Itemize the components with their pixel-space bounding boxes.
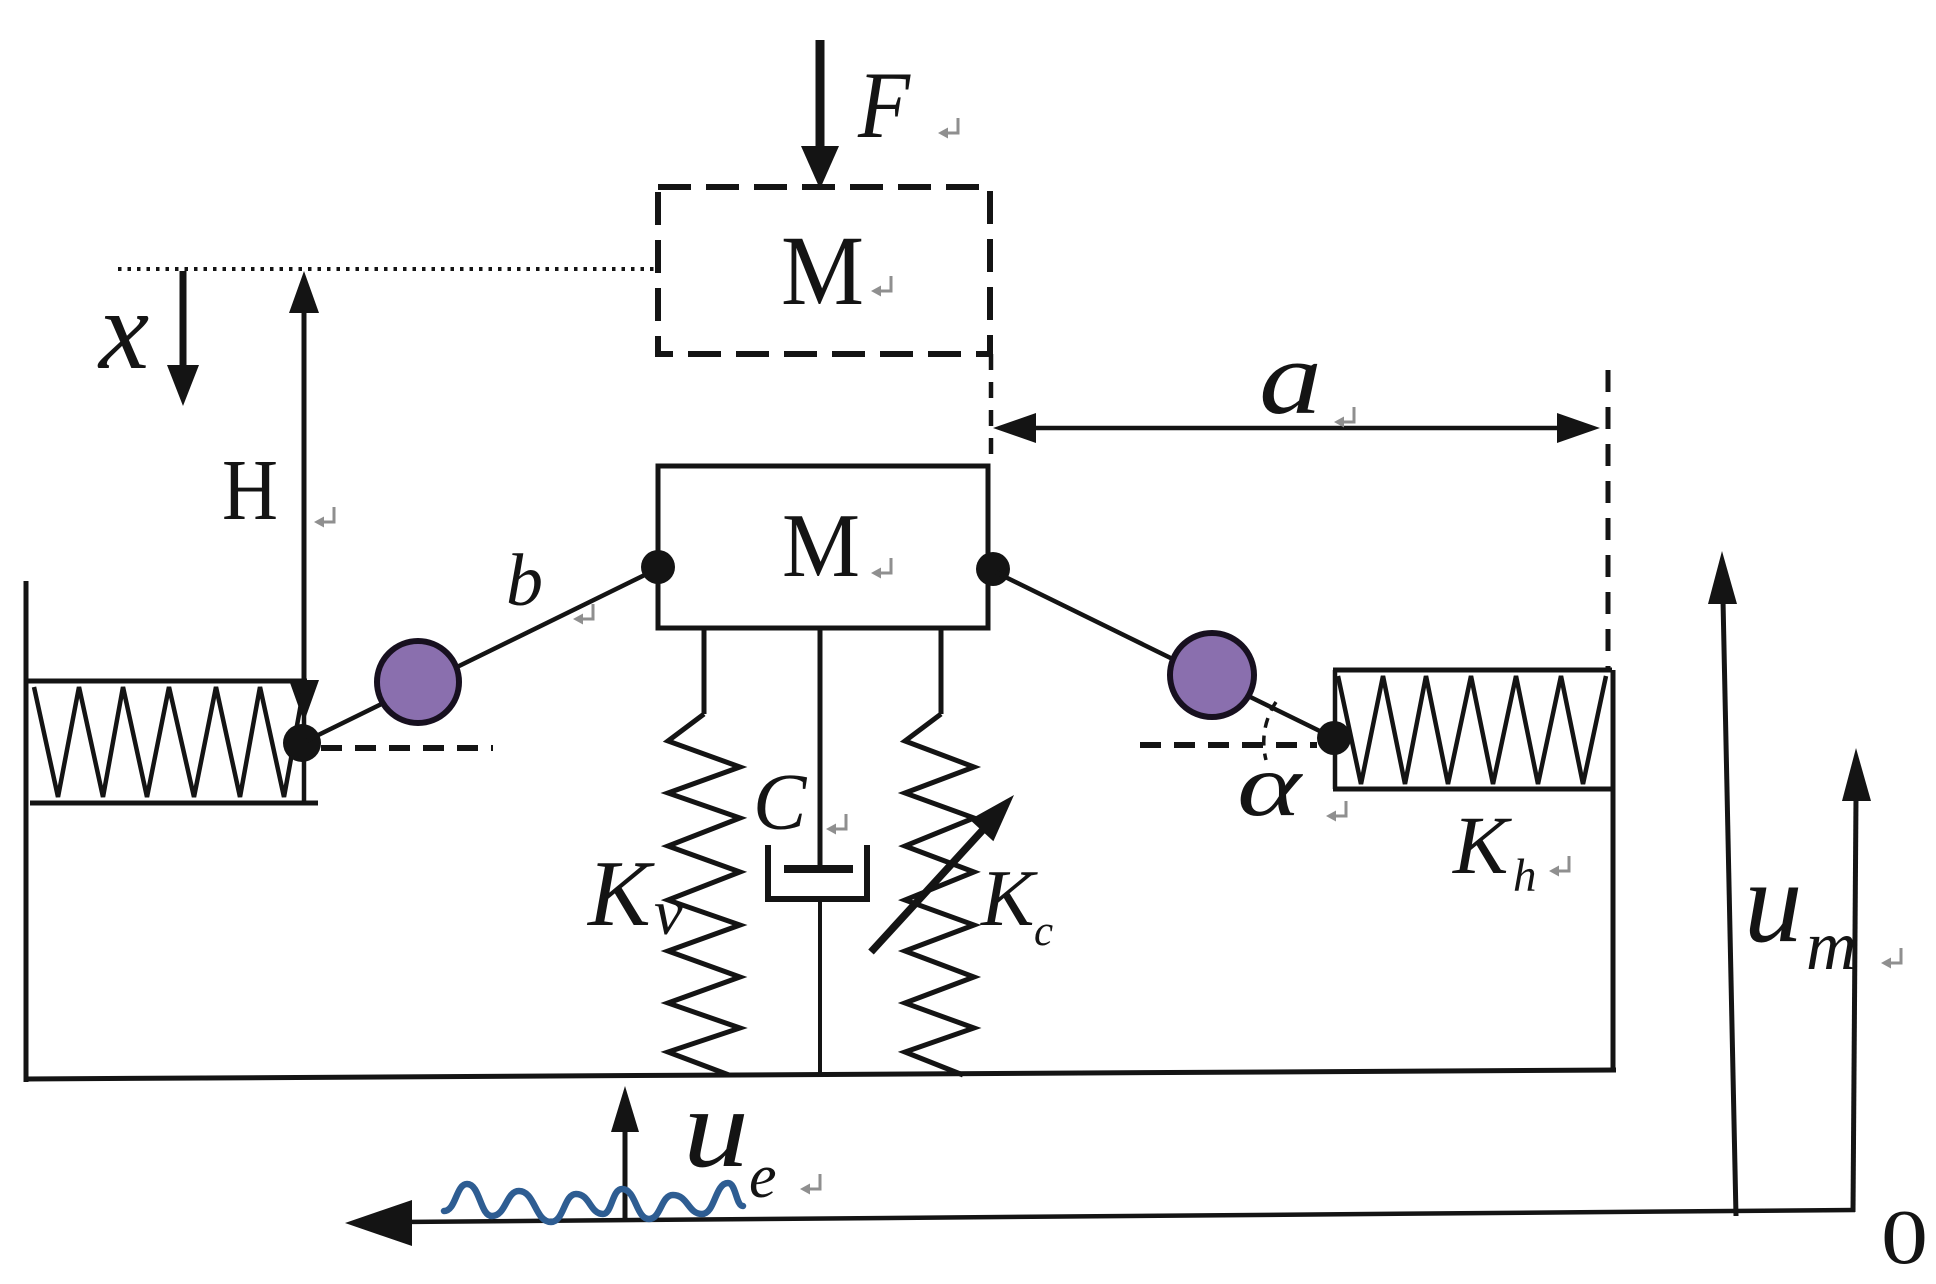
svg-text:K: K — [1452, 799, 1512, 891]
ground line — [24, 1070, 1616, 1079]
svg-text:a: a — [1259, 319, 1322, 436]
dashed angle arc — [1264, 702, 1276, 760]
svg-text:u: u — [1744, 838, 1803, 967]
svg-text:v: v — [654, 877, 683, 949]
dimension H double arrow — [289, 271, 319, 722]
svg-text:b: b — [506, 540, 543, 622]
paragraph mark after C — [826, 814, 846, 835]
spring Kh bottom rail — [1333, 787, 1612, 792]
spring Kh zigzag — [1338, 676, 1606, 784]
roller right (purple) — [1170, 633, 1254, 717]
spring Kh-left end plate — [302, 687, 307, 803]
dashed reference right — [1140, 742, 1317, 748]
svg-text:e: e — [749, 1143, 777, 1211]
displacement x arrow — [167, 271, 199, 406]
link rod b — [302, 568, 659, 743]
svg-text:x: x — [97, 268, 149, 393]
svg-text:H: H — [222, 441, 278, 538]
svg-text:M: M — [781, 215, 864, 326]
right wall — [1611, 670, 1616, 1071]
spring Kc stub — [939, 628, 944, 714]
paragraph mark after M middle — [871, 558, 891, 579]
spring Kh-left zigzag — [34, 687, 304, 797]
right pivot node — [1317, 721, 1351, 755]
svg-text:u: u — [683, 1066, 749, 1191]
svg-text:K: K — [980, 855, 1038, 943]
svg-text:C: C — [753, 759, 808, 847]
svg-text:M: M — [782, 495, 860, 596]
node right on box — [976, 552, 1010, 586]
displacement um arrow tall — [1708, 551, 1737, 1216]
damper cylinder cup — [768, 845, 867, 899]
dashed vertical under upper box — [989, 354, 994, 466]
spring Kh-left bottom rail — [30, 801, 318, 806]
paragraph mark after Kh — [1549, 856, 1569, 877]
variable arrow through Kc — [871, 784, 1026, 952]
svg-text:c: c — [1034, 908, 1053, 955]
paragraph mark after H — [314, 507, 334, 528]
svg-text:α: α — [1237, 737, 1304, 835]
dashed vertical right — [1606, 370, 1611, 668]
paragraph mark after ue — [800, 1174, 820, 1195]
svg-text:m: m — [1806, 908, 1857, 985]
paragraph mark after M upper — [871, 276, 891, 297]
dashed reference left — [321, 745, 493, 751]
spring Kh end plate — [1333, 670, 1338, 789]
paragraph mark after b — [573, 604, 593, 625]
spring Kh-left top rail — [24, 679, 307, 684]
dimension a arrow — [993, 413, 1600, 443]
dotted reference line — [118, 267, 656, 271]
damper rod lower — [818, 899, 822, 1073]
seismic wave (blue) — [444, 1183, 743, 1222]
spring Kv zigzag — [668, 714, 740, 1075]
paragraph mark after um — [1881, 948, 1901, 969]
roller left (purple) — [377, 641, 459, 723]
damper piston plate — [784, 865, 853, 873]
spring Kv stub — [702, 628, 707, 714]
mass M upper (dashed box) — [658, 187, 990, 354]
paragraph mark after a — [1334, 407, 1354, 428]
svg-text:F: F — [857, 52, 911, 158]
displacement arrow short right — [1842, 748, 1871, 1212]
left wall — [24, 581, 29, 1082]
spring Kh top rail — [1333, 668, 1612, 673]
svg-text:h: h — [1513, 850, 1537, 902]
svg-text:0: 0 — [1881, 1194, 1928, 1280]
link rod right — [991, 570, 1334, 738]
left pivot node — [283, 724, 321, 762]
spring Kc zigzag — [905, 714, 974, 1075]
mass M middle (solid box) — [658, 466, 988, 628]
paragraph mark after F — [938, 118, 958, 139]
damper C rod upper — [818, 628, 823, 869]
ground motion ue arrow — [611, 1086, 639, 1219]
force F arrow — [801, 40, 839, 189]
svg-text:K: K — [586, 842, 655, 946]
node left on box — [641, 550, 675, 584]
paragraph mark after alpha — [1326, 801, 1346, 822]
bottom axis line — [345, 1200, 1855, 1246]
